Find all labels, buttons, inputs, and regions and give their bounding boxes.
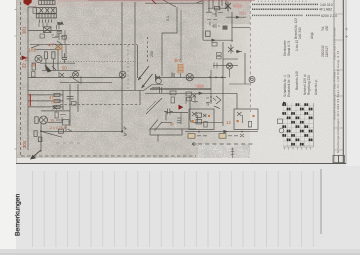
junction dot y131 (40, 130, 42, 132)
capacitor C1 (62, 53, 67, 64)
diode D1 (59, 72, 64, 78)
resistor R15 stack (217, 53, 222, 56)
text row 1 dotted (252, 3, 318, 5)
diode D3 dark cluster (156, 73, 175, 81)
wire: y131 bottom bus (41, 130, 122, 132)
module box M1 (189, 109, 214, 130)
svg-text:1 bis 12: 1 bis 12 (295, 40, 299, 51)
component box right of T4 (63, 120, 70, 126)
right title column line inner (333, 0, 335, 163)
switch S3 marks (68, 129, 73, 131)
frame: dashed divider tan/white (250, 0, 252, 112)
arrow head exit (30, 155, 36, 160)
pin matrix feed circle (279, 128, 284, 133)
text row 2 dotted (252, 8, 318, 10)
relay S1 lower contact row (36, 14, 56, 18)
wire: drops from R1 R2 (46, 49, 58, 70)
wire: y93.3 bus right (211, 92, 237, 94)
wire: x190 drop (190, 96, 207, 123)
lamp H1 double circle (249, 77, 255, 83)
wire: x166 stub (161, 112, 172, 122)
resistor R6 (54, 105, 60, 108)
resistor R4 (54, 93, 60, 96)
wire: row y131.5 (185, 131, 258, 133)
sheet right edge shadow (345, 0, 347, 164)
title col bottom boxes (333, 156, 339, 163)
svg-text:50: 50 (62, 66, 67, 71)
wire: y65.5 (213, 65, 238, 67)
component D4 dark diagonals (225, 2, 231, 12)
svg-text:Ersatzteil-Nr. 12: Ersatzteil-Nr. 12 (287, 74, 291, 97)
sheet bottom line (16, 163, 346, 165)
wire: diagonal x70-80 (70, 76, 80, 83)
wire: diagonal hatch lower (150, 120, 163, 131)
orange component tint 1 (56, 46, 63, 51)
wire: y40 row (203, 39, 233, 41)
resistor R13 (206, 31, 211, 36)
svg-text:4,7: 4,7 (48, 43, 54, 48)
wire: dashed y104.5 (60, 104, 140, 106)
transistor T1 (35, 55, 42, 62)
wire: vertical x81 (80, 76, 82, 84)
module box M2 (234, 109, 258, 130)
wire: x140 stub (139, 90, 141, 104)
frame: dashed left border (20, 2, 22, 157)
wire: extra vertical x222 (221, 0, 223, 6)
pink smudge right of T6 (195, 84, 203, 88)
svg-text:Stand 6.74: Stand 6.74 (287, 40, 291, 56)
rotated marks SSS (177, 112, 181, 124)
faint dashes y143 (56, 142, 80, 144)
top scan pink band (58, 0, 252, 2)
margin tick 3 (15, 148, 18, 150)
pin matrix bottom ticks (284, 148, 310, 150)
wire: vertical x63 (62, 90, 64, 110)
arrow on row y131.5 (223, 130, 228, 134)
schematic sheet tan paper cutout (16, 0, 250, 158)
arrow right on y93.3 (199, 92, 203, 95)
wire: bottom row y129 (150, 128, 196, 130)
pink smudge top right (233, 3, 242, 8)
svg-text:12: 12 (226, 120, 231, 125)
wire: extra vertical x216 (215, 10, 217, 17)
wire: drops from connector (39, 23, 47, 28)
svg-text:mA: mA (58, 22, 64, 26)
pink smudge top right 2 (241, 11, 247, 15)
svg-text:1k: 1k (50, 118, 54, 123)
pin matrix grid (283, 103, 314, 147)
svg-text:4F1 A82: 4F1 A82 (319, 8, 332, 12)
wire: left bus rows y101 (28, 100, 63, 102)
wire: line y63 (40, 62, 75, 64)
wire: exit diagonal to corner (31, 150, 41, 159)
plug X2 at line end (121, 127, 127, 136)
wire: vertical x245 (244, 53, 246, 84)
wire: bus diagonal step (144, 85, 163, 91)
marks near x208 (206, 98, 216, 103)
wire: center vertical x135 (134, 2, 136, 90)
wire: vertical x70 (69, 84, 71, 126)
component row y136 box 1 (188, 134, 195, 139)
component cluster blob U1 (186, 92, 198, 104)
wire: left bus rows y95 (28, 94, 63, 96)
svg-text:Ansicht Lp.: Ansicht Lp. (314, 79, 318, 95)
wire: y84 stub (229, 83, 250, 85)
wire: top feed y3 (145, 2, 203, 4)
frame: dashed bottom border (21, 155, 196, 157)
wire: y27 to border (232, 26, 250, 28)
svg-text:Bemerkungen: Bemerkungen (15, 193, 22, 236)
svg-text:430: 430 (325, 25, 329, 31)
rotated legend columns (283, 18, 329, 97)
relay S1 contact box (33, 8, 56, 14)
connector pin matrix (278, 102, 314, 150)
wire: y77.5 mid bus (155, 76, 226, 78)
wire: left bus top hook (28, 6, 36, 8)
wire: right verticals top x213 (212, 0, 214, 8)
svg-text:101: 101 (29, 48, 37, 53)
wire: step vertical x177 (162, 7, 177, 76)
wire: y111 (41, 110, 70, 112)
resistor R8 (34, 131, 37, 137)
wire: y88.5 double bus (150, 88, 211, 89)
resistor R9 (38, 137, 42, 142)
transistor T7 cluster (228, 45, 242, 54)
transistor T5 (119, 71, 126, 78)
wire: bold diagonal pair low (138, 66, 153, 88)
wire: left main vertical bus (27, 7, 29, 150)
svg-text:47: 47 (49, 95, 54, 100)
wire: extra vertical x209 (208, 0, 210, 12)
wire: T4 drop (40, 124, 42, 152)
svg-text:110/127: 110/127 (325, 45, 329, 57)
svg-text:10: 10 (206, 102, 210, 106)
resistor R17 vertical (55, 112, 58, 118)
wire: horizontal y30 (28, 29, 62, 31)
resistor R12 (215, 7, 220, 10)
wire: center vertical x137.5 short (137, 45, 139, 78)
svg-text:TR: TR (24, 57, 29, 62)
svg-text:Baustein 140: Baustein 140 (295, 71, 299, 90)
wire: vertical x211 low (210, 70, 212, 104)
wire: y122 stub (207, 121, 223, 123)
small marks y20 (207, 20, 217, 26)
box small x72 (72, 102, 77, 106)
transistor T8 (227, 63, 233, 69)
connector tick row y19-22 (40, 20, 52, 23)
orange dots modules (192, 115, 255, 122)
paper left edge line (16, 0, 18, 163)
wire: left bus y90 (28, 89, 144, 91)
switch S2 box with X (44, 27, 52, 33)
capacitor C6 small (212, 24, 220, 28)
wire: center vertical x122 (121, 2, 123, 133)
small box mid column (62, 36, 67, 40)
pin matrix dark cells (282, 103, 312, 145)
svg-text:Netzteil-Baustein 12 V Blatt: Netzteil-Baustein 12 V Blatt 4 Farbe (333, 71, 337, 120)
capacitor C4 (164, 109, 173, 115)
pin matrix feed box (278, 119, 283, 124)
wire: x229 drop (229, 69, 231, 77)
wire: second top line y49.5 (35, 49, 60, 51)
component marks right of S2 (56, 25, 62, 32)
wire: y61 dotted link (60, 61, 135, 63)
junction dots y77.4 (209, 77, 211, 79)
transistor T3 (73, 72, 79, 78)
transistor T9 small (156, 78, 162, 84)
wire: right verticals top x226 (225, 0, 227, 8)
resistor R14 box (212, 43, 217, 47)
margin tick 2 (15, 35, 18, 37)
red arrow margin (22, 56, 28, 61)
dark wedge pair Q3 (45, 65, 57, 72)
pin matrix top arrow (283, 102, 287, 105)
component row y136 marks (197, 134, 244, 137)
text row 3 dotted (252, 14, 320, 16)
wire: diagonal pair (147, 101, 156, 110)
transistor T6 (186, 74, 193, 81)
resistor R1 (44, 52, 47, 59)
wire: top diagonal (163, 0, 176, 7)
svg-text:304: 304 (22, 140, 27, 148)
arrow on y40 (212, 39, 217, 42)
ruled Bemerkungen lines (32, 171, 320, 247)
wire: y93.3 bus (145, 92, 211, 94)
fold line in ruled area (320, 169, 322, 234)
wire: dashed vertical x128 (127, 45, 129, 90)
svg-text:250: 250 (150, 51, 154, 57)
capacitor C3 (160, 87, 162, 93)
component row y136 box 2 (219, 134, 226, 139)
svg-text:Regelung 220: Regelung 220 (307, 75, 311, 95)
svg-text:140 340: 140 340 (298, 27, 302, 39)
wire: y44.7 left part (30, 44, 68, 46)
pin matrix right edge (283, 103, 314, 147)
resistor R16 on bus (170, 91, 176, 95)
junction dots y131.5 (198, 131, 200, 133)
wire: y8 row (208, 7, 228, 9)
wire: left bus rows y107 (28, 106, 63, 108)
wire: line y82.5 (60, 82, 112, 84)
junction dots x211 (210, 96, 212, 98)
svg-text:30: 30 (32, 63, 37, 68)
svg-text:6200 2-14: 6200 2-14 (321, 14, 337, 18)
marks y115 cluster (56, 115, 66, 123)
wire: vertical x78 (77, 84, 79, 112)
small marks row y12 (206, 12, 223, 14)
resistor R2 (52, 52, 55, 59)
marks left y65 (214, 63, 217, 69)
pink tint top of tan (20, 0, 250, 7)
wire: x223 vertical (222, 42, 224, 126)
tick row above row 1 (258, 0, 308, 2)
capacitor C2 (67, 97, 74, 99)
wire: left arrow y144 (192, 142, 197, 145)
orange component tint 2 (52, 100, 58, 104)
label column rotated nr (231, 148, 234, 159)
diode X y107 (53, 106, 58, 110)
junction dot A (121, 77, 123, 79)
svg-text:140 010: 140 010 (320, 3, 333, 7)
svg-text:22: 22 (22, 63, 27, 68)
wire: x232 upper (231, 12, 233, 42)
svg-text:4k7: 4k7 (174, 58, 181, 63)
wire: diagonal down-left (146, 98, 162, 114)
resistor R5 (54, 99, 60, 102)
svg-text:Si: Si (170, 122, 174, 127)
wire: y17 with arrow (226, 16, 246, 18)
wire: L corner y59 (223, 58, 238, 60)
wire: verticals x62 x66 (62, 45, 66, 59)
wire: dashed line y144 (198, 143, 253, 145)
wire: right top vertical x203 (202, 0, 204, 40)
title col cross marks (345, 28, 348, 39)
wire: y70 short bus (42, 69, 80, 71)
right title column line outer (342, 0, 344, 163)
resistor R7 (35, 117, 38, 124)
rotated small labels on tan (150, 16, 210, 106)
terminal chain x148 (147, 37, 149, 62)
margin tick 1 (15, 9, 18, 11)
fuse F1 (59, 129, 64, 133)
wire: dashed feedback y44.5 (68, 44, 137, 46)
red stamp arrow top-left (24, 0, 32, 6)
wire: bottom staircase (150, 129, 182, 142)
svg-text:2 x 0,25 A: 2 x 0,25 A (50, 126, 67, 130)
component arrows mid right (214, 96, 221, 109)
red tick top mid (152, 0, 156, 4)
wire: diagonal from junction y131 (41, 131, 62, 137)
transistor T4 (40, 116, 48, 124)
svg-text:Abgl.: Abgl. (310, 32, 314, 39)
component marks y34-40 (40, 34, 59, 38)
wire: T4 line y122.5 (48, 122, 63, 124)
tan fade to gray on right (192, 24, 250, 144)
arrow on y17 (236, 16, 240, 19)
wire: faint vertical x181 (180, 10, 182, 63)
red triangle marker mid (179, 105, 184, 110)
wire: y77.5 long bus (28, 77, 122, 79)
transistor T2 diagonals (55, 41, 62, 49)
bottom page edge shade (346, 0, 360, 166)
component column mid marks (55, 30, 65, 45)
resistor R11 (171, 97, 175, 103)
schematic sheet (white right part) (16, 0, 346, 164)
wire: box outline x237 (236, 93, 238, 109)
resistor R10 color coded (178, 64, 183, 78)
capacitor C5 dark (223, 26, 228, 30)
svg-text:0,1: 0,1 (166, 16, 170, 21)
wire: top tick diagonal (196, 1, 202, 3)
svg-text:Stand Juni 1974 Technik: Stand Juni 1974 Technik (333, 27, 337, 60)
wire: right verticals top x219 (218, 0, 220, 8)
svg-text:101: 101 (22, 26, 27, 34)
red vertical stroke margin (29, 94, 31, 106)
wire: y112.5 (166, 111, 188, 113)
wire: drop from box (65, 125, 67, 131)
left white page margin (0, 0, 16, 255)
resistor R3b small (32, 72, 35, 78)
wire: diagonal to T2 (31, 45, 40, 48)
resistor R3 small (32, 63, 35, 70)
arrowheads on diagonals (138, 77, 145, 88)
component Q cluster low (196, 113, 206, 124)
title col tick marks (334, 14, 343, 150)
connector K1 top box (39, 1, 55, 5)
right title column contents (333, 14, 348, 163)
